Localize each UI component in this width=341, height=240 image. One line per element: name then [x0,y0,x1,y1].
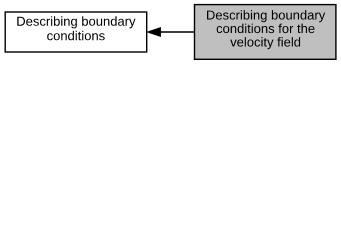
node box: Describing boundary conditions (left, white) [5,12,147,52]
label line 1: "Describing boundary" (right node) [207,10,325,22]
wire: edge shaft from right node to arrowhead [160,31,195,33]
label line 2: "conditions" (left node) [47,31,104,41]
label line 2: "conditions for the" (right node) [217,24,315,33]
node box: Describing boundary conditions for the velocity field (right, grey fill) [195,5,336,60]
label line 3: "velocity field" (right node) [230,37,300,49]
label line 1: "Describing boundary" (left node) [17,16,135,28]
arrowhead pointing at left node [147,27,161,36]
